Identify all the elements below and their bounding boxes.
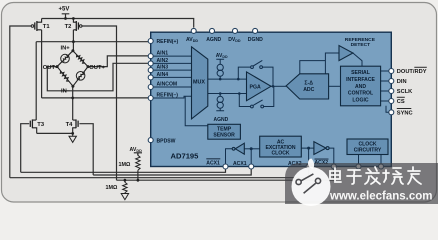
resistor zigzag bottom-left edge [60,71,69,81]
pin AIN3 [148,68,153,73]
AIN pin stubs to MUX [152,56,192,87]
watermark CJK text 电子发烧友 (approximated glyph strokes) [330,167,421,184]
svg-text:T2: T2 [65,24,72,30]
ADC block [286,74,329,99]
ACX1 pin drop [250,149,252,167]
transistor T2 [73,19,82,32]
MUX output rails [208,79,247,93]
pin MCLK2 [356,164,361,169]
pin MCLK1 [379,164,384,169]
svg-text:AINCOM: AINCOM [157,82,178,88]
current source upper (AVDD) [217,64,223,76]
pin DVDD [233,28,238,33]
pin SCLK [389,89,394,94]
wire bridge IN- to T4 drain [72,86,74,120]
node IN+ [71,49,74,52]
svg-text:PGA: PGA [250,84,261,90]
ground symbol below 1M resistor [121,194,128,200]
chopper upper row [238,67,273,86]
wire OUT+ to AIN1 [88,56,149,67]
inverter right (to ACX2B) [314,142,326,155]
reference detect buffer [339,46,353,61]
svg-text:CLOCK: CLOCK [271,151,289,157]
wire T3/T4 source ground rail [37,132,73,134]
svg-text:1MΩ: 1MΩ [106,185,118,191]
pin AIN4 [148,75,153,80]
svg-text:SENSOR: SENSOR [213,133,235,139]
pin DOUT/RDY [389,69,394,74]
pin CS [389,99,394,104]
ACX bus line 4 [117,167,334,180]
wire 1M resistor 2 to ground [124,180,126,193]
pin DIN [389,79,394,84]
strain gauge circle top-left [61,54,70,63]
发 [365,167,380,184]
pin ACX1-bar [223,164,228,169]
junction REFIN(+) line / IN+ branch [72,40,75,43]
svg-text:T4: T4 [66,122,74,128]
AC excitation clock block [260,136,302,157]
1M resistor upper (AVDD) [136,155,140,170]
svg-text:ADC: ADC [303,87,314,93]
MUX block [192,47,208,119]
svg-text:1MΩ: 1MΩ [119,162,131,168]
node IN- [71,85,74,88]
wire T2 source to bridge IN+ [72,30,74,51]
svg-text:SYNC: SYNC [397,111,413,117]
svg-text:AIN1: AIN1 [157,51,169,57]
wire line C to REFIN(-) [42,97,149,99]
烧 [383,168,403,184]
ACX bus line 3 [10,167,309,178]
ACX bus line 1 [21,167,226,173]
watermark backdrop [285,163,438,204]
svg-text:OUT–: OUT– [43,65,59,71]
transistor T1 [31,19,41,32]
right inverter to ACX2B pin [328,148,334,167]
REFIN(-) to temp sensor wire [152,96,208,126]
svg-text:ACX1: ACX1 [206,161,220,167]
1M resistor lower (to gnd) [123,182,127,193]
watermark logo disc [292,159,331,207]
transistor T4 [73,119,78,133]
junction 1M resistor 1 on bus [137,179,140,182]
wire +5V rail to AVDD pin [42,19,194,28]
chopper switch lower [251,100,264,108]
pin AIN1 [148,54,153,59]
serial interface block [341,66,381,106]
current source lower (AGND) [217,96,223,108]
电 [330,168,341,182]
子 [347,170,361,184]
junction 1M resistor 2 on bus [124,179,127,182]
svg-text:OUT+: OUT+ [89,65,105,71]
wire T4 gate to ACX bus [79,124,93,175]
svg-text:AIN4: AIN4 [157,72,169,78]
clock circuitry stubs [359,155,382,167]
pin AVDD [191,28,196,33]
svg-text:CONTROL: CONTROL [348,91,373,97]
junction T3/T4 sources at ground [71,132,74,135]
wire T3 drain riser [35,42,37,120]
svg-text:CIRCUITRY: CIRCUITRY [354,148,382,154]
wire T1 source to line C [41,30,43,98]
pin ACX2 [306,164,311,169]
AGND current source branch [216,94,224,111]
svg-text:T3: T3 [37,122,45,128]
svg-text:LOGIC: LOGIC [352,97,368,103]
wire T1 gate to ACX bus [10,26,31,178]
inverter left (to ACX1B) [235,143,244,154]
node OUT+ [87,65,90,68]
svg-text:+5V: +5V [59,7,70,13]
chip internal junction dots [219,78,310,151]
ref detect output to serial [353,53,362,66]
PGA output to ADC [271,85,286,87]
svg-text:REFIN(+): REFIN(+) [157,39,179,45]
bridge edges [57,51,88,86]
svg-text:REFIN(–): REFIN(–) [157,93,179,99]
pin SYNC [389,110,394,115]
svg-text:AIN2: AIN2 [157,58,169,64]
svg-text:IN–: IN– [61,89,71,95]
AVDD current source branch [216,59,224,79]
junction +5V stem on rail [64,17,67,20]
pin REFIN(+) [148,39,153,44]
junction REFIN(-) line / IN- branch [71,97,74,100]
left inverter to ACX1B pin [226,149,233,167]
svg-text:MUX: MUX [193,79,205,85]
svg-text:BPDSW: BPDSW [157,138,176,144]
serial block stubs to right pins [381,71,392,101]
+5V supply symbol [62,14,70,19]
svg-text:Σ-Δ: Σ-Δ [304,81,313,87]
pin ACX2-bar [331,164,336,169]
svg-text:DIN: DIN [397,79,407,85]
svg-text:AND: AND [355,84,366,90]
chopper lower row [239,86,273,106]
wire T2 gate to ACX bus [82,26,117,180]
ADC to serial block [329,85,341,87]
svg-text:CS: CS [397,99,405,105]
ADC top to reference detect loop [300,53,339,74]
ACX bus line 2 [93,167,251,175]
pin AGND [210,28,215,33]
svg-text:DETECT: DETECT [351,42,371,48]
svg-text:SCLK: SCLK [397,89,413,95]
pin REFIN(-) [148,96,153,101]
left inverter input / AC clock [244,148,259,150]
wire AVDD to 1M resistor [137,153,139,180]
wire REFIN(+) line [36,41,149,43]
AVDD external supply symbol [134,153,142,156]
transistor T3 [30,119,36,133]
pin AINCOM [148,85,153,90]
svg-text:INTERFACE: INTERFACE [346,77,375,83]
svg-text:DGND: DGND [248,37,263,43]
svg-text:DOUT/RDY: DOUT/RDY [397,69,427,75]
junction T2 drain on rail [72,17,75,20]
pin BPDSW [148,138,153,143]
strain gauge circle bottom-right [76,72,85,81]
svg-text:AGND: AGND [206,37,221,43]
AC clock right to ACX2 drop and inverter [301,148,314,167]
svg-text:T1: T1 [43,24,51,30]
pin DGND [253,28,258,33]
wire OUT- to AIN2 [47,63,149,91]
svg-text:AIN3: AIN3 [157,65,169,71]
node OUT- [56,65,59,68]
svg-text:AGND: AGND [214,117,229,123]
AD7195 chip body [151,32,392,166]
svg-text:IN+: IN+ [61,46,71,52]
友 [408,167,421,184]
temp sensor block [208,124,241,139]
clock circuitry block [347,139,388,155]
svg-text:ACX1: ACX1 [233,161,247,167]
chip internal wires [152,53,391,167]
PGA block [247,72,272,101]
ground symbol below T3/T4 [69,133,76,142]
pin AIN2 [148,61,153,66]
SYNC stub [386,106,391,113]
svg-text:AD7195: AD7195 [171,151,200,160]
svg-text:SERIAL: SERIAL [351,70,370,76]
wire T3 gate to ACX bus [21,124,30,173]
svg-text:www.elecfans.com: www.elecfans.com [329,191,432,203]
chopper switch upper [251,60,263,68]
resistor zigzag top-right edge [77,55,85,64]
pin ACX1 [249,164,254,169]
